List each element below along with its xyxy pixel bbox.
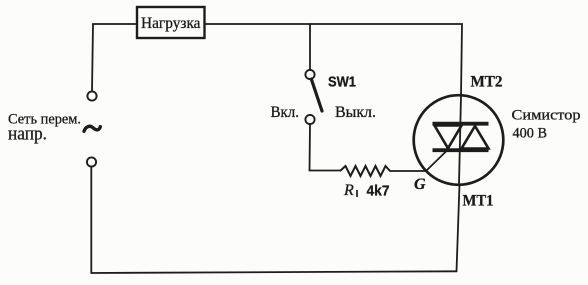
svg-text:G: G xyxy=(414,176,426,193)
triac bottom bar xyxy=(433,148,489,152)
wire: bottom horizontal return wire xyxy=(91,271,456,273)
wire: switch branch drop from top wire xyxy=(309,24,311,70)
resistor R1 zigzag xyxy=(340,166,390,176)
triac top bar xyxy=(433,122,489,126)
wire: load box to top-right corner and down to triac MT2 xyxy=(205,24,462,96)
svg-text:Вкл.: Вкл. xyxy=(271,104,300,121)
wire: top-left segment from left branch to load box xyxy=(93,23,136,25)
triac U1 (Симистор) xyxy=(414,95,504,193)
switch SW1 xyxy=(271,70,377,124)
triac vertical lead through body xyxy=(459,96,461,184)
svg-text:SW1: SW1 xyxy=(328,74,356,91)
wire: AC bottom terminal down to bottom-left corner xyxy=(90,167,92,273)
svg-text:Симистор: Симистор xyxy=(512,108,581,124)
AC source terminal (top) xyxy=(87,91,96,100)
svg-text:400 В: 400 В xyxy=(513,126,548,142)
svg-text:4k7: 4k7 xyxy=(367,183,390,200)
wire: triac MT1 lead down to bottom wire xyxy=(457,185,460,272)
wire: left vertical down to AC top terminal xyxy=(92,24,93,92)
svg-text:R: R xyxy=(343,182,354,199)
load box (Нагрузка) xyxy=(137,7,205,38)
wire: resistor right end to triac circle xyxy=(390,170,426,172)
switch top contact circle xyxy=(305,70,314,79)
AC waveform symbol ~ xyxy=(84,126,100,131)
switch lever xyxy=(311,79,322,111)
svg-text:Нагрузка: Нагрузка xyxy=(141,15,201,32)
svg-text:Выкл.: Выкл. xyxy=(335,104,376,121)
label R1 4k7 xyxy=(343,182,390,200)
svg-text:МТ2: МТ2 xyxy=(471,74,503,91)
triac right triangle (pointing up) xyxy=(462,126,489,149)
triac body circle xyxy=(414,95,504,185)
label Симистор 400 В xyxy=(512,108,581,142)
triac left triangle (pointing down) xyxy=(435,126,462,149)
svg-text:напр.: напр. xyxy=(8,124,47,145)
AC source terminal (bottom) xyxy=(87,157,96,166)
AC source label "Сеть перем. напр." xyxy=(8,112,81,145)
wire: switch bottom to resistor left end xyxy=(310,124,341,171)
svg-text:МТ1: МТ1 xyxy=(463,193,494,210)
gate lead G xyxy=(426,150,448,172)
switch bottom contact circle xyxy=(305,115,314,124)
